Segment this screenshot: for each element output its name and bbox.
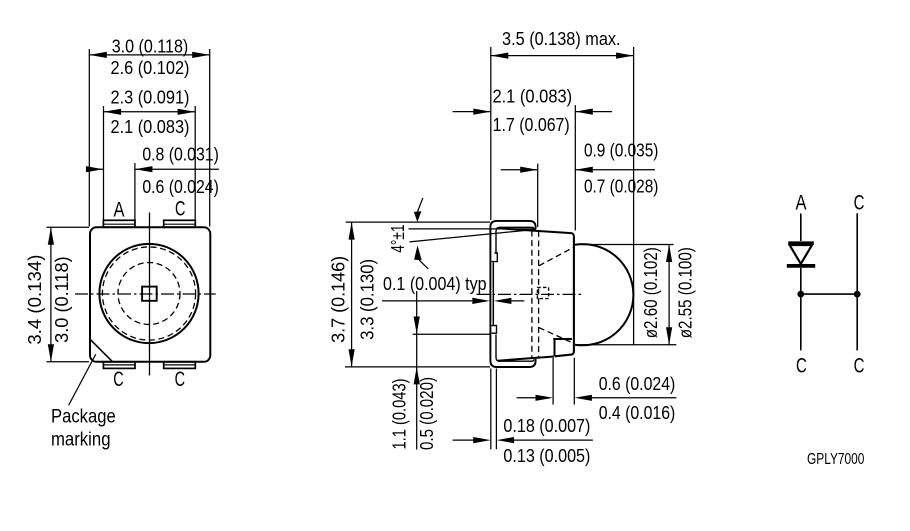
- extension line front face top: [574, 105, 576, 230]
- svg-text:1.7 (0.067): 1.7 (0.067): [493, 115, 570, 135]
- horizontal centerline dash-dot: [75, 293, 216, 295]
- svg-text:3.5 (0.138) max.: 3.5 (0.138) max.: [502, 29, 621, 49]
- lead tab C (bottom right): [164, 362, 196, 369]
- junction dot right: [854, 291, 861, 298]
- svg-text:C: C: [113, 368, 123, 391]
- extension line lead A right: [134, 163, 136, 220]
- 4 deg taper reference line A horizontal: [409, 228, 536, 230]
- body side face: [492, 262, 494, 325]
- vertical dim extension bottom: [47, 361, 90, 363]
- svg-text:0.5 (0.020): 0.5 (0.020): [417, 377, 437, 450]
- dim line 0.9/0.7: [501, 169, 655, 171]
- diode D1 top bar: [788, 241, 814, 245]
- svg-text:GPLY7000: GPLY7000: [807, 451, 864, 468]
- svg-text:3.3 (0.130): 3.3 (0.130): [358, 259, 378, 340]
- svg-text:A: A: [114, 199, 125, 222]
- wire right C: [856, 213, 858, 350]
- body bottom edge: [498, 357, 554, 361]
- 4 deg angle arrow top: [418, 198, 423, 212]
- extension line lead A left: [103, 106, 105, 220]
- svg-text:ø2.60 (0.102): ø2.60 (0.102): [641, 247, 661, 338]
- dim line dia 2.60/2.55: [668, 245, 670, 345]
- horizontal centerline dash-dot: [477, 293, 584, 295]
- leader line to package marking chamfer: [69, 354, 96, 405]
- dim line 2.3/2.1: [104, 111, 196, 113]
- extension line bottom left horizontal: [345, 366, 490, 368]
- dim line 3.5 max: [491, 55, 634, 57]
- body front face: [555, 236, 574, 356]
- extension line lead C right: [194, 106, 196, 220]
- dim line 3.0/2.6: [89, 54, 209, 56]
- svg-text:0.7 (0.028): 0.7 (0.028): [584, 176, 659, 196]
- wire anode top: [800, 214, 802, 242]
- clip lead inner line top: [496, 227, 534, 253]
- lead tab A (top left): [103, 220, 135, 227]
- chamfer corner (package marking index): [90, 339, 112, 361]
- svg-text:3.7 (0.146): 3.7 (0.146): [329, 256, 349, 343]
- dim line 3.7/3.3: [351, 222, 353, 367]
- vertical dim extension top: [47, 226, 90, 228]
- body top edge (4 deg taper): [498, 228, 574, 236]
- svg-text:C: C: [175, 368, 185, 391]
- lens outer circle: [99, 244, 198, 343]
- lead tab C (top right): [164, 220, 196, 227]
- package body outline: [90, 227, 210, 361]
- svg-text:0.8 (0.031): 0.8 (0.031): [142, 144, 219, 164]
- hidden reflector dashed vertical 2: [538, 231, 540, 358]
- dim line 0.1 typ: [382, 300, 524, 302]
- dim line 3.4/3.0 vertical: [50, 227, 52, 362]
- svg-text:2.1 (0.083): 2.1 (0.083): [111, 117, 190, 137]
- diode D1 triangle: [790, 245, 812, 264]
- svg-text:A: A: [796, 191, 807, 214]
- dim line 0.18/0.13: [453, 439, 593, 441]
- hidden reflector dashed vertical 1: [531, 231, 533, 358]
- clip lead bottom leg end step: [492, 326, 497, 334]
- svg-text:1.1 (0.043): 1.1 (0.043): [390, 379, 410, 450]
- chip square: [142, 287, 157, 301]
- extension line dome right: [633, 47, 635, 345]
- svg-text:C: C: [175, 198, 185, 221]
- junction dot left: [797, 291, 804, 298]
- extension line package left: [88, 49, 90, 227]
- 4 deg taper reference line B sloped: [410, 229, 536, 242]
- dim line 0.6/0.4: [517, 397, 677, 399]
- svg-text:ø2.55 (0.100): ø2.55 (0.100): [676, 247, 696, 338]
- chip cavity dashed circle: [118, 263, 180, 325]
- extension line clip outer top: [490, 47, 492, 220]
- svg-text:C: C: [854, 354, 865, 377]
- extension line clip bottom inner: [495, 369, 497, 450]
- extension line clip bottom outer: [490, 369, 492, 450]
- svg-text:marking: marking: [51, 430, 111, 451]
- extension line dome top: [576, 244, 674, 246]
- svg-text:C: C: [796, 354, 807, 377]
- svg-text:0.6 (0.024): 0.6 (0.024): [599, 374, 676, 394]
- svg-text:3.4 (0.134): 3.4 (0.134): [25, 255, 45, 345]
- svg-text:0.6 (0.024): 0.6 (0.024): [142, 177, 219, 197]
- svg-text:2.1 (0.083): 2.1 (0.083): [492, 86, 572, 106]
- svg-text:2.6 (0.102): 2.6 (0.102): [111, 58, 190, 78]
- dim line 2.1/1.7: [453, 111, 612, 113]
- svg-text:4°±1: 4°±1: [388, 224, 408, 252]
- clip lead top leg end step: [492, 253, 498, 262]
- extension line clip arm end: [537, 164, 539, 227]
- wire cathode to junction: [800, 268, 802, 351]
- svg-text:0.18 (0.007): 0.18 (0.007): [503, 416, 590, 436]
- svg-text:C: C: [854, 191, 865, 214]
- extension line clip step horizontal: [413, 333, 491, 335]
- extension line top left horizontal: [346, 221, 490, 223]
- extension line notch left: [552, 358, 554, 405]
- extension line dome bottom: [576, 344, 676, 346]
- svg-text:3.0 (0.118): 3.0 (0.118): [112, 36, 189, 56]
- svg-text:Package: Package: [51, 406, 116, 427]
- cathode notch: [553, 339, 572, 356]
- hidden reflector dashed diagonal bottom: [539, 328, 574, 344]
- extension line package right: [209, 49, 211, 227]
- clip lead outer outline: [490, 221, 535, 367]
- svg-text:2.3 (0.091): 2.3 (0.091): [111, 87, 190, 107]
- svg-text:0.1 (0.004) typ: 0.1 (0.004) typ: [383, 274, 487, 294]
- svg-text:0.4 (0.016): 0.4 (0.016): [599, 403, 676, 423]
- clip lead inner line bottom: [496, 335, 534, 362]
- lens inner dashed circle: [102, 247, 195, 340]
- svg-text:0.9 (0.035): 0.9 (0.035): [584, 141, 659, 161]
- dome lens: [575, 244, 633, 345]
- hidden chip dashed square: [537, 287, 548, 298]
- svg-text:3.0 (0.118): 3.0 (0.118): [52, 256, 72, 343]
- wire junction horizontal: [801, 293, 857, 295]
- vertical centerline: [149, 213, 151, 376]
- diode D1 cathode bar: [787, 264, 815, 268]
- lead tab C (bottom left): [103, 362, 135, 369]
- extension line notch right: [573, 358, 575, 405]
- 4 deg angle arrow bottom: [419, 260, 428, 269]
- hidden reflector dashed diagonal top: [539, 247, 574, 266]
- svg-text:0.13 (0.005): 0.13 (0.005): [503, 446, 590, 466]
- dim line 0.8/0.6 with outside arrows: [87, 168, 104, 170]
- dim line 1.1/0.5: [416, 291, 418, 450]
